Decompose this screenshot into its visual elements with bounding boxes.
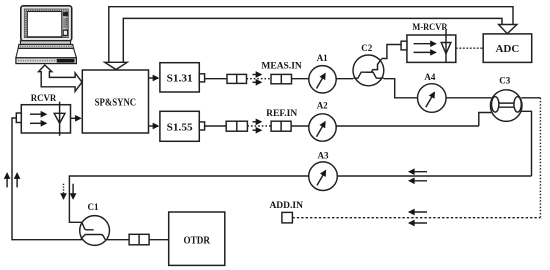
wire vertical dotted right edge	[539, 98, 541, 218]
wire A3 return line	[337, 175, 531, 177]
attenuator A4	[418, 84, 447, 113]
wire C2 tap to M-RCVR	[382, 45, 402, 59]
svg-text:C3: C3	[499, 76, 510, 86]
wire A3 to C1 corner	[69, 176, 308, 222]
wire top pipe outer	[109, 7, 513, 63]
attenuator A1	[309, 66, 336, 93]
attenuator A3	[309, 162, 338, 191]
connector pair 2a	[226, 121, 247, 131]
wire C3 lower right to A3 return	[521, 111, 531, 176]
attenuator A2	[309, 114, 336, 141]
wire ADD.IN dashed	[292, 217, 540, 219]
up arrows RCVR return	[6, 174, 8, 188]
block SP&SYNC	[82, 70, 148, 133]
block ADC	[483, 34, 532, 63]
wire top pipe inner	[123, 18, 502, 62]
wire A2 to C3 lower input	[336, 125, 479, 127]
wire C3 upper right to ADD return	[521, 97, 540, 99]
svg-text:C2: C2	[361, 43, 372, 53]
block S1.55	[160, 111, 205, 141]
wire RCVR return left	[12, 118, 83, 240]
svg-text:REF.IN: REF.IN	[266, 109, 297, 119]
dotted fiber gap row1	[247, 78, 272, 80]
svg-text:ADD.IN: ADD.IN	[269, 201, 303, 211]
wire SP&SYNC to S1.31	[149, 77, 159, 79]
hollow arrowhead into SP&SYNC top	[105, 62, 127, 69]
connector pair 1a	[227, 74, 247, 83]
wire connector to A1	[292, 78, 309, 80]
svg-text:M-RCVR: M-RCVR	[412, 22, 448, 33]
computer terminal monitor	[21, 6, 72, 41]
block M-RCVR	[401, 35, 456, 62]
svg-text:A2: A2	[317, 101, 328, 111]
coupler C3	[490, 90, 522, 122]
computer terminal keyboard	[16, 41, 77, 64]
svg-text:C1: C1	[88, 202, 99, 212]
elbow double arrow computer-SP&SYNC	[39, 65, 83, 91]
dotted fiber gap row2	[247, 125, 271, 127]
coupler C1	[80, 216, 110, 246]
svg-text:RCVR: RCVR	[31, 93, 57, 104]
direction arrows ADD return	[409, 211, 427, 213]
svg-text:MEAS.IN: MEAS.IN	[261, 62, 302, 72]
direction arrows A3 return	[409, 171, 427, 173]
direction arrows row1	[253, 74, 262, 76]
direction arrows row2	[253, 121, 262, 123]
M-RCVR internal arrows	[414, 43, 436, 45]
wire SP&SYNC to S1.55	[149, 125, 159, 127]
connector pair 1b MEAS.IN	[271, 74, 292, 83]
svg-text:SP&SYNC: SP&SYNC	[95, 98, 137, 109]
connector pair 3	[129, 234, 149, 245]
connector pair 2b REF.IN	[271, 121, 291, 131]
svg-text:A4: A4	[424, 72, 435, 82]
wire connector to OTDR	[149, 239, 169, 241]
svg-text:A3: A3	[318, 151, 329, 161]
wire S1.55 to connector	[205, 125, 227, 127]
svg-text:A1: A1	[317, 53, 328, 63]
block RCVR	[16, 105, 70, 133]
RCVR photodiode	[54, 102, 65, 136]
block ADD.IN port	[282, 212, 293, 223]
svg-text:S1.31: S1.31	[167, 74, 193, 85]
wire C1 to connector	[106, 239, 129, 241]
hollow arrowhead into ADC top	[499, 25, 517, 34]
svg-text:OTDR: OTDR	[183, 236, 210, 247]
down arrow dotted into C1	[63, 184, 65, 199]
wire C3 lower left to A2 path	[479, 113, 492, 127]
wire M-RCVR to ADC dashed	[456, 47, 483, 49]
wire connector to A2	[291, 125, 309, 127]
wire A1 to C2	[336, 78, 353, 80]
down arrow solid into C1	[72, 184, 74, 199]
RCVR internal arrows	[30, 113, 46, 115]
wire C2 to A4	[384, 79, 418, 98]
svg-text:ADC: ADC	[495, 43, 519, 55]
block OTDR	[169, 212, 225, 265]
wire A4 to C3	[446, 97, 491, 99]
svg-text:S1.55: S1.55	[167, 122, 193, 133]
wire S1.31 to connector	[205, 78, 227, 80]
M-RCVR photodiode	[441, 30, 451, 62]
wire RCVR to SP&SYNC	[71, 117, 81, 119]
coupler C2	[353, 55, 384, 86]
block S1.31	[160, 63, 205, 92]
